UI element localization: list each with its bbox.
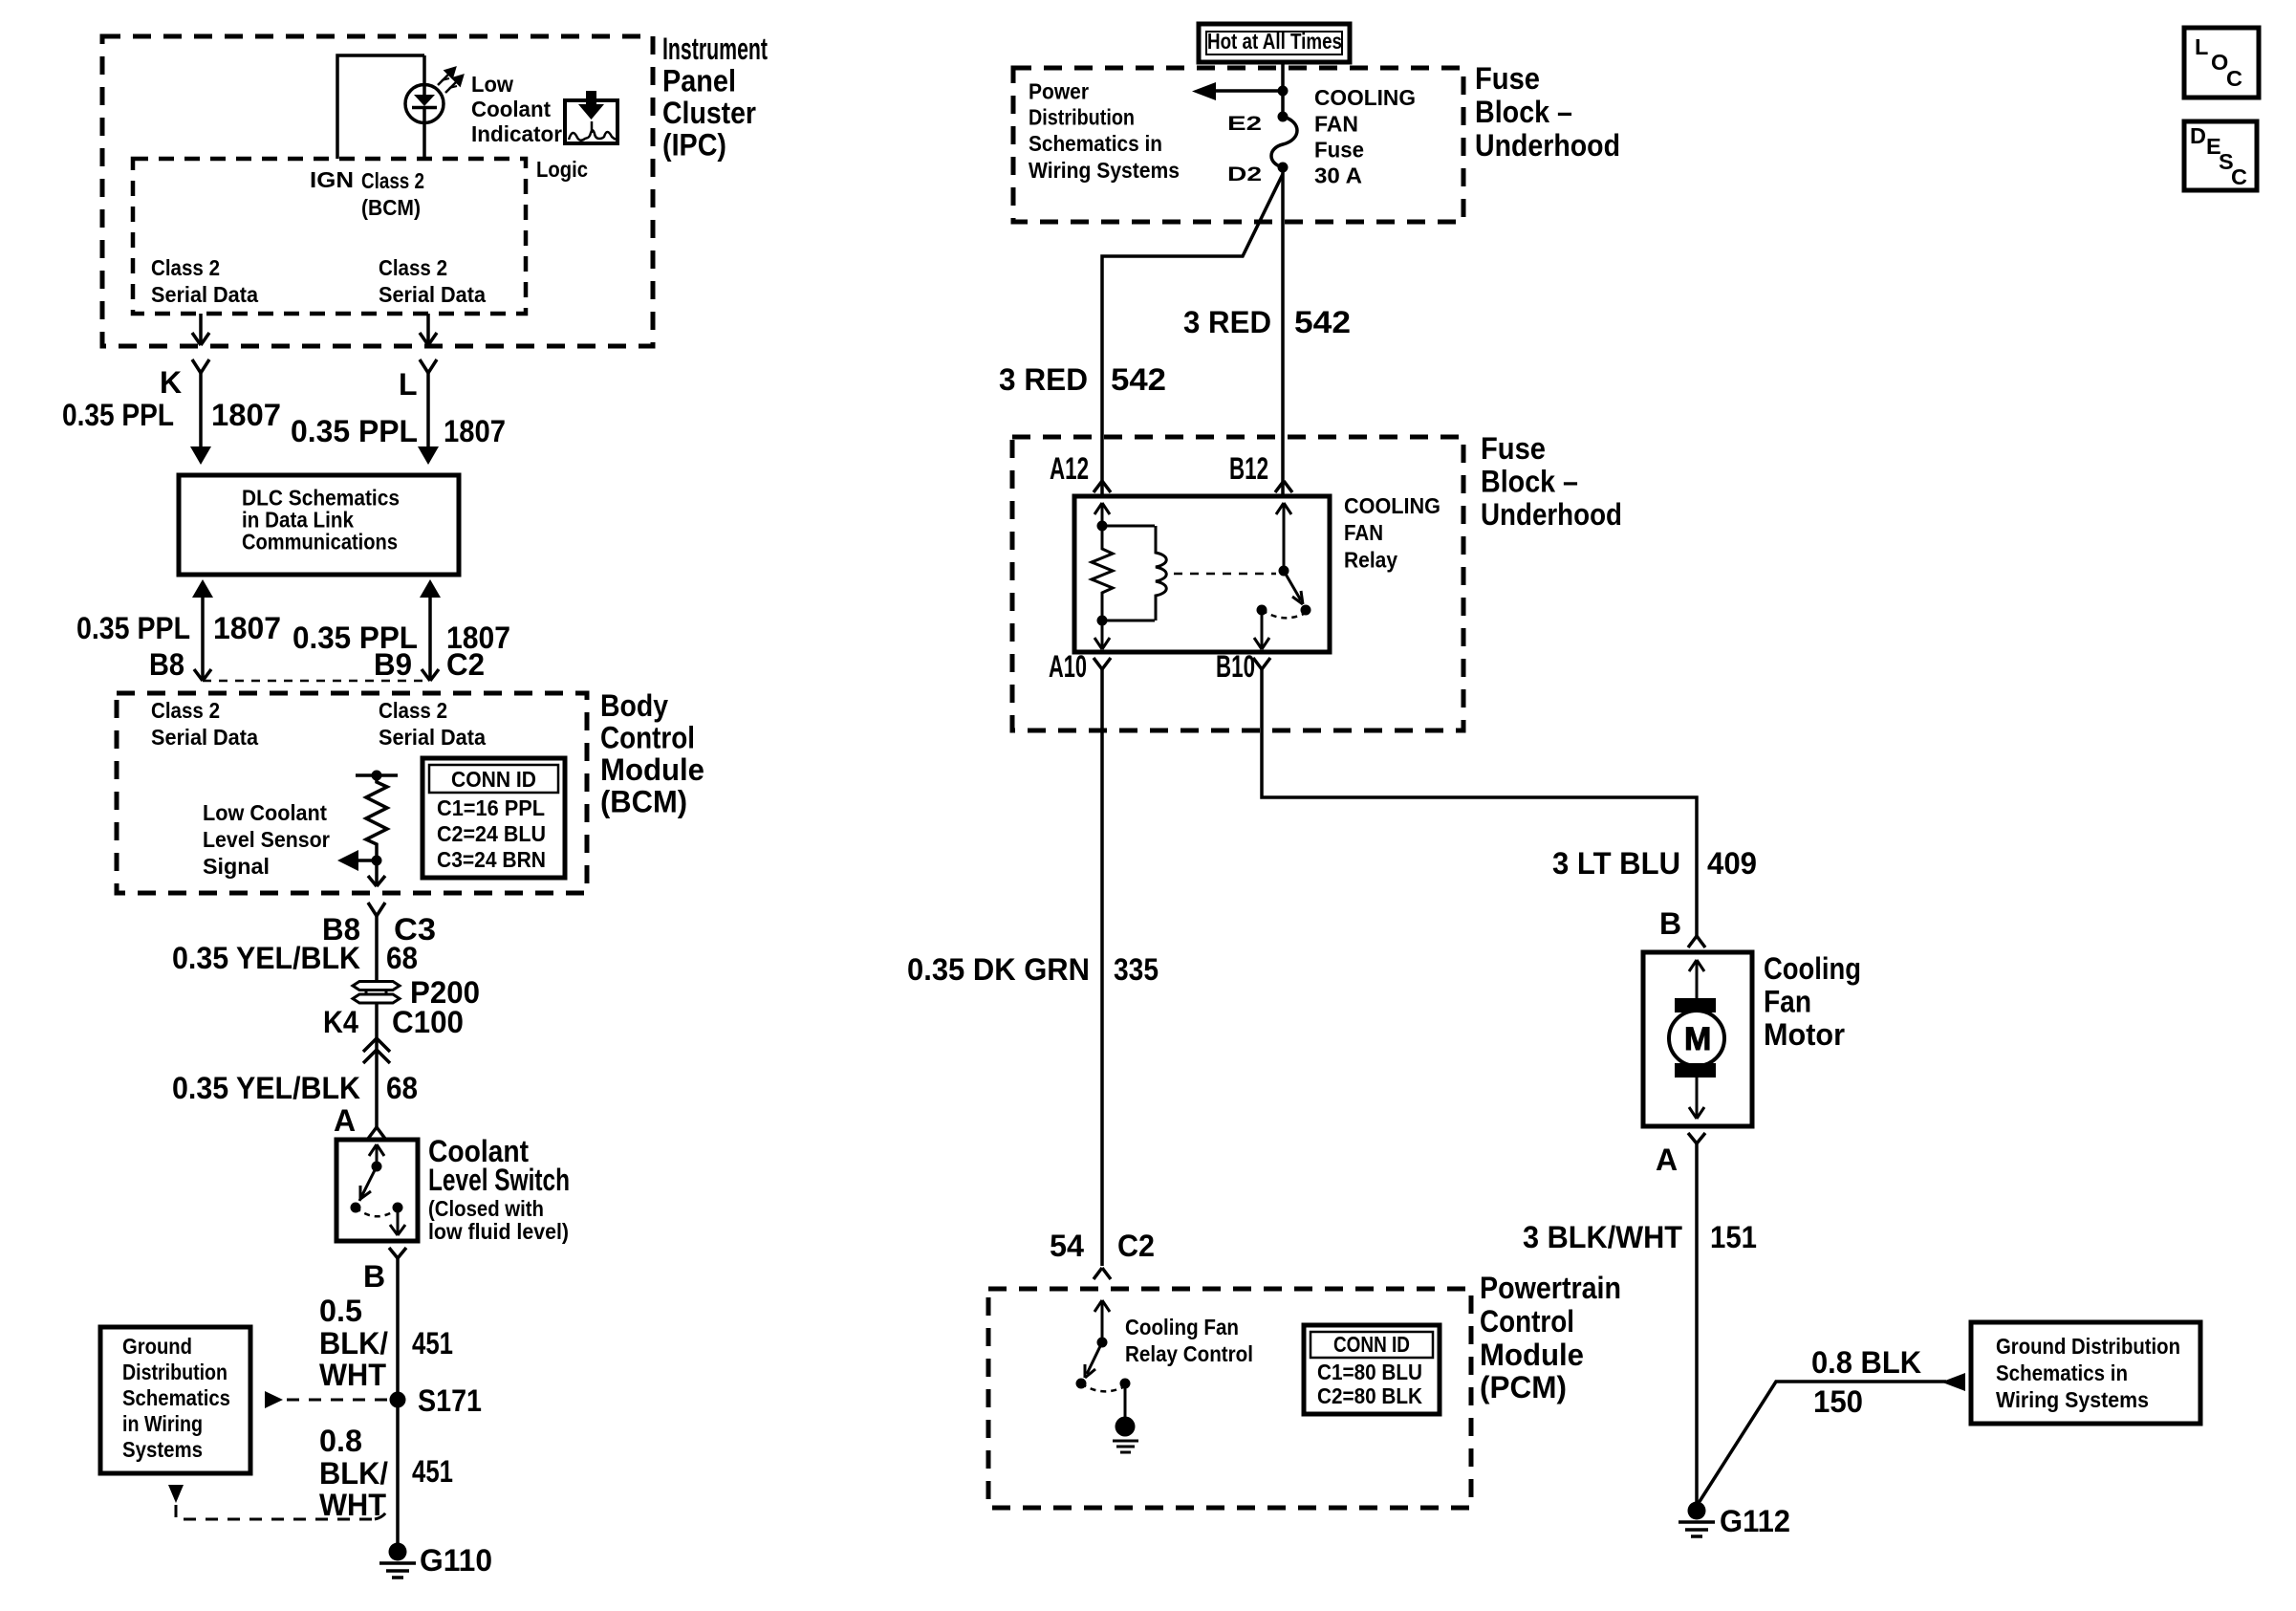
- svg-text:C1=16 PPL: C1=16 PPL: [437, 795, 545, 820]
- wire class2 K down arrow: [192, 314, 209, 345]
- label COOLING FAN Fuse 30 A: [1314, 85, 1416, 188]
- svg-text:Level Switch: Level Switch: [428, 1163, 570, 1197]
- wire hot feed down: [1281, 62, 1285, 117]
- svg-text:WHT: WHT: [319, 1488, 386, 1522]
- label 3 LT BLU 409: [1552, 846, 1757, 881]
- label Coolant Level Switch: [428, 1134, 570, 1197]
- label Cooling Fan Motor: [1764, 951, 1861, 1052]
- svg-text:(IPC): (IPC): [662, 128, 726, 163]
- svg-text:0.35 YEL/BLK: 0.35 YEL/BLK: [172, 941, 360, 975]
- label B9 pin: [374, 647, 412, 682]
- label C1=16 PPL: [437, 795, 545, 820]
- label B pin motor: [1659, 906, 1681, 941]
- svg-text:Panel: Panel: [662, 64, 736, 98]
- connector pin below motor: [1688, 1133, 1705, 1143]
- svg-text:Underhood: Underhood: [1475, 128, 1620, 163]
- svg-text:1807: 1807: [444, 414, 506, 448]
- svg-text:K4: K4: [323, 1005, 358, 1039]
- splice node S171: [390, 1392, 406, 1408]
- label Power Distribution Schematics in Wiring Systems: [1029, 79, 1180, 183]
- svg-text:Cooling Fan: Cooling Fan: [1125, 1315, 1239, 1339]
- node bottom of sensor resistor: [372, 856, 382, 866]
- relay coil winding: [1156, 526, 1166, 620]
- label 0.8 BLK/ WHT: [319, 1424, 388, 1522]
- wire B10 to motor: [1262, 669, 1697, 936]
- wire LED anode: [422, 55, 426, 85]
- cooling fan relay box: [1074, 496, 1330, 652]
- label 3 RED 542 right: [1183, 305, 1351, 339]
- svg-text:D2: D2: [1227, 163, 1262, 185]
- svg-text:68: 68: [386, 1071, 418, 1105]
- svg-text:K: K: [160, 365, 182, 400]
- svg-text:BLK/: BLK/: [319, 1456, 388, 1491]
- svg-text:A10: A10: [1049, 649, 1087, 684]
- label B12 pin: [1229, 451, 1268, 486]
- label Ground Distribution Schematics in Wiring Systems left: [122, 1334, 230, 1462]
- hot at all times box: [1199, 24, 1350, 62]
- motor brush bottom: [1675, 1063, 1716, 1078]
- wire K to DLC: [190, 373, 211, 465]
- svg-text:C3=24 BRN: C3=24 BRN: [437, 847, 546, 872]
- label Instrument Panel Cluster (IPC): [662, 32, 768, 163]
- svg-text:Fan: Fan: [1764, 985, 1811, 1019]
- node relay coil top: [1097, 521, 1156, 532]
- svg-text:Control: Control: [1480, 1304, 1574, 1339]
- relay coil branch A12 entry arrow: [1094, 503, 1110, 526]
- wire IGN riser: [337, 55, 424, 159]
- svg-text:COOLING: COOLING: [1344, 493, 1440, 518]
- body control module BCM dashed box: [117, 693, 587, 893]
- svg-text:M: M: [1684, 1021, 1711, 1057]
- resistor low coolant level sensor: [366, 775, 387, 860]
- svg-text:Block –: Block –: [1481, 465, 1578, 499]
- svg-text:0.8: 0.8: [319, 1424, 362, 1458]
- svg-text:Schematics: Schematics: [122, 1385, 230, 1410]
- svg-text:C2=24 BLU: C2=24 BLU: [437, 821, 546, 846]
- label IGN: [310, 167, 354, 192]
- svg-text:Serial Data: Serial Data: [379, 725, 487, 750]
- label E2: [1227, 113, 1262, 135]
- label 0.35 YEL/BLK 68 row2: [172, 1071, 418, 1105]
- svg-text:0.35 PPL: 0.35 PPL: [76, 611, 190, 645]
- label C2 pin: [446, 647, 485, 682]
- svg-text:FAN: FAN: [1314, 112, 1358, 137]
- label K4 C100: [323, 1005, 464, 1039]
- svg-text:low fluid level): low fluid level): [428, 1219, 569, 1244]
- arrow to ground distribution box: [1941, 1373, 1965, 1391]
- grommet P200: [353, 982, 400, 1004]
- label Class 2 Serial Data BCM left: [151, 698, 259, 750]
- label LOC: [2195, 34, 2242, 91]
- svg-text:68: 68: [386, 941, 418, 975]
- logic icon arrow and liquid: [569, 91, 616, 141]
- svg-text:Class 2: Class 2: [379, 255, 447, 280]
- wire D2 to B12: [1281, 167, 1285, 496]
- svg-text:Fuse: Fuse: [1481, 431, 1546, 466]
- svg-text:L: L: [2195, 34, 2208, 59]
- svg-text:Wiring Systems: Wiring Systems: [1996, 1387, 2149, 1412]
- label Fuse Block Underhood relay: [1481, 431, 1622, 532]
- svg-text:Ground: Ground: [122, 1334, 192, 1359]
- label L: [399, 367, 418, 402]
- fuse block underhood relay dashed box: [1012, 437, 1463, 730]
- connector C100 chevrons: [363, 1038, 390, 1063]
- label B10 pin: [1216, 649, 1255, 684]
- svg-text:Class 2: Class 2: [379, 698, 447, 723]
- svg-text:Powertrain: Powertrain: [1480, 1271, 1621, 1305]
- svg-text:Distribution: Distribution: [122, 1360, 227, 1384]
- relay A10 exit arrow: [1094, 620, 1110, 649]
- svg-text:Fuse: Fuse: [1314, 138, 1364, 163]
- label Hot at All Times: [1207, 29, 1342, 54]
- connector pin K below IPC: [192, 359, 209, 373]
- relay mechanical linkage dashed: [1174, 573, 1276, 576]
- svg-text:C: C: [2231, 164, 2247, 189]
- label 0.35 PPL 1807 row2 left: [76, 611, 281, 645]
- label 0.5 BLK/ WHT: [319, 1294, 388, 1392]
- svg-text:S171: S171: [418, 1383, 482, 1418]
- label B8 pin: [149, 647, 184, 682]
- label closed with low fluid level: [428, 1196, 569, 1244]
- svg-text:B10: B10: [1216, 649, 1255, 684]
- svg-text:C2: C2: [1117, 1229, 1155, 1263]
- svg-text:Logic: Logic: [536, 157, 588, 182]
- relay switch arm: [1279, 566, 1311, 616]
- label A pin switch: [334, 1103, 356, 1138]
- label S171: [418, 1383, 482, 1418]
- svg-text:451: 451: [412, 1326, 453, 1361]
- svg-text:Hot at All Times: Hot at All Times: [1207, 29, 1342, 54]
- svg-text:C: C: [2226, 66, 2242, 91]
- svg-text:CONN ID: CONN ID: [1333, 1332, 1410, 1357]
- label CONN ID BCM: [451, 767, 536, 792]
- svg-text:Relay: Relay: [1344, 548, 1397, 573]
- svg-text:0.35 DK GRN: 0.35 DK GRN: [907, 952, 1090, 987]
- connector pin B10: [1253, 658, 1270, 669]
- wire sensor to BCM edge: [368, 860, 385, 886]
- svg-text:1807: 1807: [211, 398, 281, 432]
- label CONN ID PCM: [1333, 1332, 1410, 1357]
- label Low Coolant Level Sensor Signal: [203, 800, 330, 879]
- switch contact arm coolant level: [351, 1144, 406, 1235]
- label C1=80 BLU: [1317, 1360, 1422, 1384]
- LED flash arrows: [438, 68, 463, 93]
- label Powertrain Control Module (PCM): [1480, 1271, 1621, 1404]
- label 0.8 BLK 150: [1811, 1345, 1921, 1419]
- svg-text:542: 542: [1111, 362, 1166, 397]
- label 451 lower: [412, 1454, 453, 1489]
- svg-text:Power: Power: [1029, 79, 1089, 104]
- svg-text:Fuse: Fuse: [1475, 61, 1540, 96]
- wire G112 to ground distribution: [1699, 1382, 1946, 1503]
- svg-text:in Wiring: in Wiring: [122, 1411, 203, 1436]
- svg-text:150: 150: [1813, 1384, 1863, 1419]
- svg-text:3 LT BLU: 3 LT BLU: [1552, 846, 1680, 881]
- label A12 pin: [1050, 451, 1089, 486]
- svg-text:A: A: [334, 1103, 356, 1138]
- connector pin 54 C2: [1094, 1268, 1111, 1279]
- label 3 RED 542 left: [999, 362, 1166, 397]
- label Logic: [536, 157, 588, 182]
- svg-text:Serial Data: Serial Data: [379, 282, 487, 307]
- wire L to DLC: [418, 373, 439, 465]
- label Ground Distribution Schematics in Wiring Systems right: [1996, 1334, 2180, 1412]
- svg-text:WHT: WHT: [319, 1358, 386, 1392]
- svg-text:(Closed with: (Closed with: [428, 1196, 544, 1221]
- wire motor to G112: [1695, 1143, 1699, 1511]
- svg-text:B8: B8: [149, 647, 184, 682]
- svg-text:COOLING: COOLING: [1314, 85, 1416, 110]
- label Class 2 Serial Data right: [379, 255, 487, 307]
- svg-text:Module: Module: [1480, 1338, 1584, 1372]
- svg-text:C100: C100: [392, 1005, 464, 1039]
- label C2=24 BLU: [437, 821, 546, 846]
- svg-text:Ground Distribution: Ground Distribution: [1996, 1334, 2180, 1359]
- arrow low coolant level sensor signal: [337, 850, 377, 871]
- label 0.35 DK GRN 335: [907, 952, 1159, 987]
- logic icon box: [565, 100, 617, 143]
- relay suppression resistor: [1092, 526, 1113, 620]
- svg-text:30 A: 30 A: [1314, 163, 1362, 188]
- svg-text:FAN: FAN: [1344, 520, 1383, 545]
- label 3 BLK/WHT 151: [1523, 1220, 1757, 1254]
- PCM internal ground: [1113, 1383, 1138, 1452]
- wire A10 to PCM: [1100, 669, 1104, 1266]
- svg-text:CONN ID: CONN ID: [451, 767, 536, 792]
- svg-text:Wiring Systems: Wiring Systems: [1029, 158, 1180, 183]
- svg-text:0.35 PPL: 0.35 PPL: [291, 414, 418, 448]
- label D2: [1227, 163, 1262, 185]
- svg-text:542: 542: [1294, 305, 1351, 339]
- svg-text:Class 2: Class 2: [151, 698, 220, 723]
- wire B9 up arrow to DLC: [420, 579, 441, 681]
- label Class 2 Serial Data left: [151, 255, 259, 307]
- wire D2 branch to A12: [1102, 174, 1283, 496]
- svg-text:L: L: [399, 367, 418, 402]
- svg-text:Block –: Block –: [1475, 95, 1572, 129]
- wire BCM to P200: [375, 916, 379, 981]
- svg-text:151: 151: [1710, 1220, 1757, 1254]
- label C2=80 BLK: [1317, 1383, 1422, 1408]
- label 451 upper: [412, 1326, 453, 1361]
- DLC schematics box: [179, 475, 459, 575]
- wire P200 to switch: [375, 1003, 379, 1127]
- node E2: [1278, 112, 1289, 122]
- connector pin A12: [1094, 481, 1111, 492]
- fuse COOLING FAN 30A: [1271, 117, 1297, 167]
- svg-text:Class 2: Class 2: [361, 168, 424, 193]
- ground G110: [379, 1543, 416, 1578]
- label A pin motor: [1656, 1143, 1678, 1177]
- ground distribution box left: [100, 1327, 250, 1473]
- relay switch B12 entry arrow: [1276, 503, 1291, 571]
- motor exit arrow: [1689, 1078, 1704, 1119]
- svg-text:335: 335: [1114, 952, 1159, 987]
- LED indicator symbol: [405, 84, 444, 123]
- connector pin below BCM: [368, 903, 385, 916]
- dashed link B8 B9 pins: [203, 680, 430, 683]
- node D2: [1278, 163, 1289, 173]
- svg-text:Serial Data: Serial Data: [151, 282, 259, 307]
- label 54 C2 pins: [1050, 1229, 1155, 1263]
- node relay coil bottom: [1097, 616, 1156, 626]
- label Low Coolant Indicator: [471, 72, 562, 146]
- svg-text:Schematics in: Schematics in: [1029, 131, 1162, 156]
- svg-text:B9: B9: [374, 647, 412, 682]
- svg-text:451: 451: [412, 1454, 453, 1489]
- label Body Control Module (BCM): [600, 688, 704, 819]
- svg-text:Control: Control: [600, 721, 695, 755]
- dashed ground reference arrow below box: [168, 1485, 389, 1519]
- label A10 pin: [1049, 649, 1087, 684]
- coolant level switch box: [336, 1140, 418, 1241]
- svg-text:C1=80 BLU: C1=80 BLU: [1317, 1360, 1422, 1384]
- DESC reference box: [2184, 121, 2257, 190]
- arrow to power distribution: [1192, 82, 1289, 100]
- svg-text:3 RED: 3 RED: [1183, 305, 1271, 339]
- label DLC Schematics in Data Link Communications: [242, 486, 400, 555]
- svg-text:A12: A12: [1050, 451, 1089, 486]
- svg-text:Low: Low: [471, 72, 514, 97]
- svg-text:Low Coolant: Low Coolant: [203, 800, 327, 825]
- label B pin switch: [363, 1259, 385, 1294]
- svg-text:G112: G112: [1720, 1504, 1790, 1538]
- svg-text:(BCM): (BCM): [361, 195, 421, 220]
- svg-text:Underhood: Underhood: [1481, 497, 1622, 532]
- label G112: [1720, 1504, 1790, 1538]
- fuse block underhood top dashed box: [1013, 68, 1463, 222]
- svg-text:1807: 1807: [213, 611, 281, 645]
- svg-text:C2: C2: [446, 647, 485, 682]
- label 0.35 PPL 1807 row1 right: [291, 414, 506, 448]
- svg-text:Cluster: Cluster: [662, 96, 756, 130]
- svg-text:B12: B12: [1229, 451, 1268, 486]
- svg-text:Instrument: Instrument: [662, 32, 768, 66]
- wire class2 L down arrow: [420, 314, 437, 345]
- connector pin above motor: [1688, 936, 1705, 947]
- label K: [160, 365, 182, 400]
- label 0.35 PPL 1807 row1 left: [62, 398, 281, 432]
- label G110: [420, 1543, 492, 1578]
- svg-text:(BCM): (BCM): [600, 785, 687, 819]
- svg-text:Cooling: Cooling: [1764, 951, 1861, 986]
- label COOLING FAN Relay: [1344, 493, 1440, 573]
- svg-text:Distribution: Distribution: [1029, 105, 1135, 130]
- svg-text:G110: G110: [420, 1543, 492, 1578]
- LOC reference box: [2184, 28, 2259, 98]
- connector pin L below IPC: [420, 359, 437, 373]
- label Class 2 Serial Data BCM right: [379, 698, 487, 750]
- ground G112: [1679, 1502, 1715, 1537]
- svg-text:IGN: IGN: [310, 167, 354, 192]
- motor M circle: [1669, 1011, 1724, 1066]
- connector pin A10: [1094, 658, 1111, 669]
- label 0.35 PPL 1807 row2 right: [292, 620, 510, 655]
- label Cooling Fan Relay Control: [1125, 1315, 1253, 1366]
- svg-text:Class 2: Class 2: [151, 255, 220, 280]
- node top of sensor resistor: [356, 771, 398, 781]
- label 0.35 YEL/BLK 68 row1: [172, 941, 418, 975]
- label Fuse Block Underhood top: [1475, 61, 1620, 163]
- svg-text:0.8 BLK: 0.8 BLK: [1811, 1345, 1921, 1380]
- svg-text:E2: E2: [1227, 113, 1262, 135]
- svg-text:Coolant: Coolant: [471, 97, 551, 121]
- svg-text:Serial Data: Serial Data: [151, 725, 259, 750]
- svg-text:BLK/: BLK/: [319, 1326, 388, 1361]
- svg-text:Communications: Communications: [242, 529, 398, 554]
- svg-text:A: A: [1656, 1143, 1678, 1177]
- powertrain control module dashed box: [988, 1289, 1471, 1508]
- svg-text:Body: Body: [600, 688, 668, 723]
- svg-text:C2=80 BLK: C2=80 BLK: [1317, 1383, 1422, 1408]
- label Class 2 (BCM): [361, 168, 424, 220]
- label DESC: [2190, 123, 2247, 189]
- instrument panel cluster IPC dashed box: [102, 36, 653, 346]
- svg-text:Relay Control: Relay Control: [1125, 1341, 1253, 1366]
- label C3=24 BRN: [437, 847, 546, 872]
- svg-text:3 BLK/WHT: 3 BLK/WHT: [1523, 1220, 1682, 1254]
- svg-text:Level Sensor: Level Sensor: [203, 827, 330, 852]
- relay switch contact arc: [1262, 610, 1306, 618]
- CONN ID table BCM: [422, 758, 565, 878]
- svg-text:Motor: Motor: [1764, 1017, 1845, 1052]
- PCM relay control switch: [1076, 1300, 1131, 1391]
- label B8 C3 pins: [322, 912, 436, 947]
- svg-text:0.35 PPL: 0.35 PPL: [62, 398, 174, 432]
- svg-text:(PCM): (PCM): [1480, 1370, 1567, 1404]
- connector pin above switch: [368, 1127, 385, 1139]
- motor entry arrow: [1689, 960, 1704, 998]
- IPC inner dashed box: [133, 159, 526, 314]
- relay B10 contact exit arrow: [1254, 605, 1269, 650]
- ground distribution box right: [1971, 1322, 2200, 1424]
- svg-text:0.35 YEL/BLK: 0.35 YEL/BLK: [172, 1071, 360, 1105]
- svg-text:409: 409: [1707, 846, 1757, 881]
- svg-text:3 RED: 3 RED: [999, 362, 1088, 397]
- connector pin B below switch: [389, 1248, 406, 1258]
- svg-text:B: B: [363, 1259, 385, 1294]
- svg-text:Module: Module: [600, 752, 704, 787]
- svg-text:Schematics in: Schematics in: [1996, 1361, 2128, 1385]
- wire B8 up arrow to DLC: [192, 579, 213, 681]
- CONN ID table PCM: [1304, 1325, 1440, 1414]
- cooling fan motor box: [1643, 952, 1752, 1126]
- svg-text:Signal: Signal: [203, 854, 270, 879]
- svg-text:B: B: [1659, 906, 1681, 941]
- wire LED cathode to inner box: [422, 123, 426, 160]
- motor brush top: [1675, 998, 1716, 1012]
- svg-text:Systems: Systems: [122, 1437, 203, 1462]
- svg-text:0.5: 0.5: [319, 1294, 362, 1328]
- dashed wire to S171 with arrow: [265, 1391, 390, 1408]
- svg-text:54: 54: [1050, 1229, 1084, 1263]
- label P200: [410, 975, 480, 1010]
- connector pin B12: [1275, 481, 1292, 492]
- svg-text:D: D: [2190, 123, 2206, 148]
- wire switch to G110: [396, 1258, 400, 1552]
- svg-text:Indicator: Indicator: [471, 121, 562, 146]
